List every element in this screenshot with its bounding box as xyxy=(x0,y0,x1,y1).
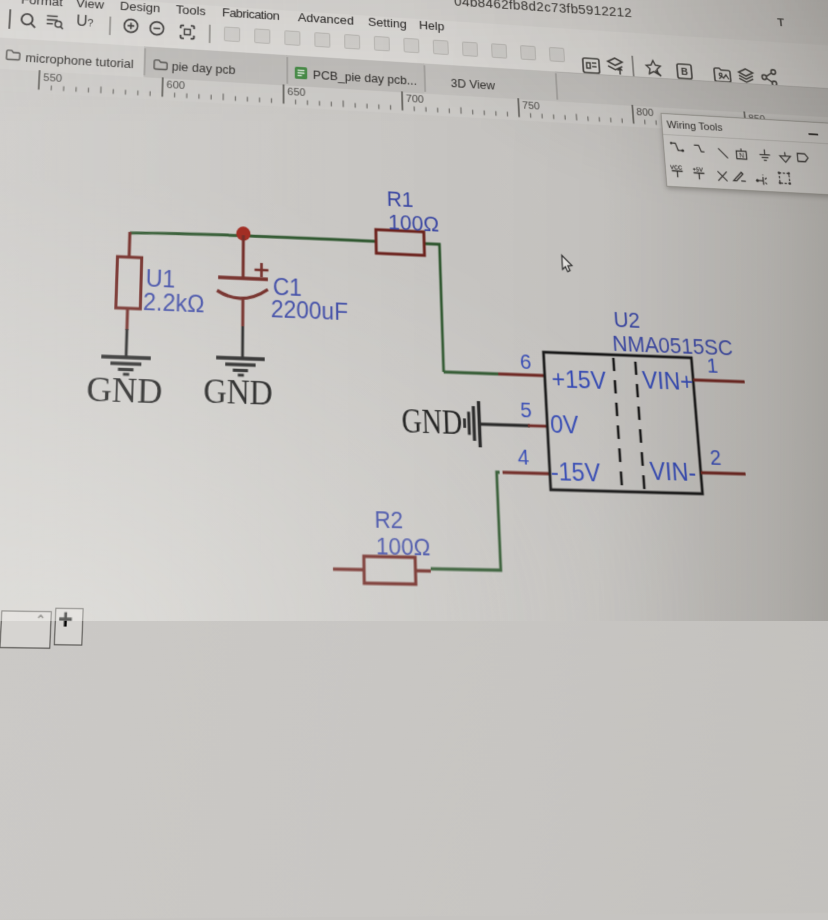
U2 isolation dashed line 1 xyxy=(613,358,622,490)
ground GND2 xyxy=(216,358,265,377)
C1 polarity plus xyxy=(255,263,269,278)
svg-text:VIN+: VIN+ xyxy=(641,367,694,396)
stray mark top-right xyxy=(0,0,828,621)
U2 pin 5 stub xyxy=(528,424,547,427)
resistor R1 xyxy=(376,230,425,256)
U2 pin 4 stub xyxy=(503,472,550,473)
top url band xyxy=(0,0,828,53)
svg-text:N: N xyxy=(739,152,745,160)
IC U2 body xyxy=(543,352,702,494)
svg-text:100Ω: 100Ω xyxy=(388,211,439,237)
wire top horizontal net xyxy=(130,230,376,244)
svg-text:-15V: -15V xyxy=(550,458,601,488)
svg-text:+15V: +15V xyxy=(551,365,607,394)
svg-text:6: 6 xyxy=(519,350,531,374)
wire R1 right + vertical down xyxy=(424,244,443,372)
url text xyxy=(454,0,633,21)
U2 pin 1 stub xyxy=(693,380,744,382)
U2 pin 6 stub xyxy=(498,374,544,376)
svg-text:R2: R2 xyxy=(374,507,403,535)
wire U1 to ground xyxy=(125,329,129,356)
mouse cursor xyxy=(562,255,573,271)
svg-text:1: 1 xyxy=(706,354,719,378)
svg-text:2200uF: 2200uF xyxy=(271,295,348,325)
ground GND1 xyxy=(101,356,151,375)
svg-text:2: 2 xyxy=(709,446,722,471)
svg-text:VIN-: VIN- xyxy=(649,457,697,486)
ground GND3 rotated xyxy=(464,401,481,448)
svg-text:5: 5 xyxy=(520,398,533,423)
wire GND to pin 5 xyxy=(481,424,530,426)
svg-text:R1: R1 xyxy=(386,187,413,212)
resistor U1 xyxy=(115,231,142,330)
capacitor C1 xyxy=(217,234,268,327)
U2 pin 2 stub xyxy=(701,473,746,474)
svg-text:GND: GND xyxy=(401,401,463,442)
U2 isolation dashed line 2 xyxy=(635,362,644,490)
svg-text:GND: GND xyxy=(86,369,163,411)
svg-text:U2: U2 xyxy=(613,308,641,333)
menu + icon band xyxy=(0,0,828,95)
svg-text:2.2kΩ: 2.2kΩ xyxy=(143,288,205,318)
ruler band xyxy=(0,68,828,145)
svg-text:GND: GND xyxy=(203,371,273,413)
svg-text:100Ω: 100Ω xyxy=(376,533,431,561)
svg-text:4: 4 xyxy=(517,445,530,470)
wire C1 to ground xyxy=(241,326,244,357)
junction node xyxy=(236,226,250,241)
svg-text:0V: 0V xyxy=(549,410,579,439)
wire pin4 to R2 xyxy=(428,470,504,570)
resistor R2 xyxy=(333,556,431,585)
wire to U2 pin 6 xyxy=(444,372,499,374)
